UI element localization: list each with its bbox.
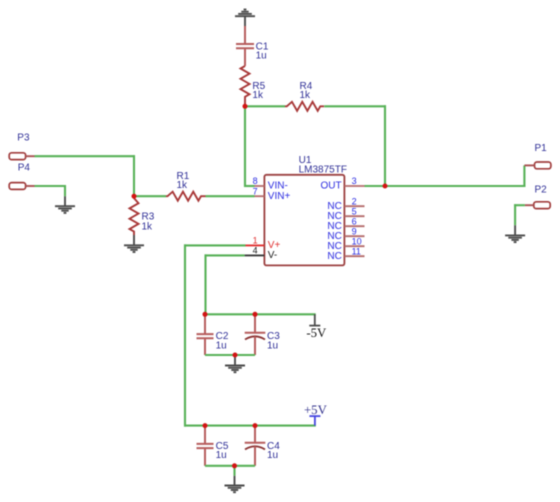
svg-text:+5V: +5V (304, 403, 328, 417)
capacitor C4 polarized (245, 426, 266, 466)
svg-text:1u: 1u (216, 340, 227, 351)
svg-text:3: 3 (352, 176, 357, 186)
node junction C2 top dot (203, 312, 208, 317)
ground GND under P2 (505, 225, 525, 242)
wire C2/C3 bottoms (205, 354, 255, 356)
svg-text:9: 9 (352, 226, 357, 236)
svg-text:P4: P4 (18, 162, 31, 173)
pin 4 V- (245, 254, 265, 256)
resistor R1 (166, 192, 205, 201)
svg-text:1k: 1k (142, 221, 154, 232)
wire P3 to corner (35, 155, 136, 157)
wire C5/C4 bottoms (205, 465, 255, 467)
node junction C2/C3 ground dot (233, 353, 238, 358)
connector P1 (524, 162, 551, 169)
wire R1 to pin 7 (206, 195, 255, 197)
svg-text:NC: NC (327, 251, 341, 262)
wire node to R1 (134, 195, 166, 197)
pin 2 NC (344, 205, 364, 207)
svg-text:1u: 1u (256, 51, 267, 62)
wire up to P1 (523, 165, 525, 187)
svg-text:10: 10 (352, 236, 362, 246)
wire junction to R4 (245, 105, 285, 107)
node junction C3 top dot (253, 312, 258, 317)
svg-text:VIN+: VIN+ (268, 191, 291, 202)
svg-text:-5V: -5V (306, 326, 327, 340)
capacitor C5 (197, 426, 214, 466)
supply +5V symbol (309, 416, 320, 426)
node junction OUT dot (383, 184, 388, 189)
svg-text:1k: 1k (177, 180, 189, 191)
wire R4 to corner (324, 105, 386, 107)
op-amp U1 body (264, 175, 344, 266)
node junction R5/R4 dot (243, 104, 248, 109)
node junction C5/C4 ground dot (232, 463, 237, 468)
wire ground to C1 (244, 26, 246, 44)
node junction C5 top dot (203, 423, 208, 428)
pin 11 NC (344, 255, 364, 257)
svg-text:8: 8 (253, 176, 258, 186)
capacitor C2 (197, 314, 214, 355)
svg-text:1u: 1u (267, 450, 278, 461)
resistor R3 (130, 196, 139, 235)
pin 10 NC (344, 245, 364, 247)
svg-text:1k: 1k (300, 90, 312, 101)
node junction P3/R1/R3 dot (132, 194, 137, 199)
wire pin4 V- run (205, 254, 245, 256)
wire P2 to ground (514, 204, 525, 206)
connector P3 (9, 153, 34, 160)
ground GND under C5/C4 (225, 476, 245, 492)
ground GND under C2/C3 (225, 356, 245, 373)
svg-text:1: 1 (253, 236, 258, 246)
resistor R5 (241, 66, 250, 106)
svg-text:P2: P2 (535, 184, 548, 195)
ground GND under P4 (55, 196, 75, 213)
pin 7 VIN+ (255, 195, 265, 197)
wire V- down to -5V rail (204, 254, 206, 315)
pin 8 VIN- (255, 185, 265, 187)
wire +5V rail (184, 425, 316, 427)
resistor R4 (285, 102, 324, 111)
wire corner down to OUT node (384, 105, 386, 186)
wire -5V rail (205, 313, 316, 315)
wire junction down to pin 8 (244, 106, 246, 187)
svg-text:V-: V- (268, 250, 277, 261)
capacitor C3 polarized (245, 314, 266, 355)
capacitor C1 (236, 44, 254, 66)
svg-text:2: 2 (352, 196, 357, 206)
svg-text:1u: 1u (216, 450, 227, 461)
supply -5V symbol (309, 314, 320, 325)
pin 1 V+ (246, 244, 265, 246)
pin 3 OUT (344, 185, 364, 187)
svg-text:5: 5 (352, 206, 357, 216)
connector P2 (525, 202, 550, 209)
wire V+ down to +5V rail (184, 244, 186, 426)
svg-text:1u: 1u (267, 340, 278, 351)
svg-text:6: 6 (352, 216, 357, 226)
svg-text:4: 4 (253, 246, 258, 256)
wire OUT to P1/P2 run (365, 185, 526, 187)
wire pin1 V+ run (184, 244, 246, 246)
wire corner down to R1 node (133, 155, 135, 196)
ground GND under R3 (124, 235, 144, 252)
svg-text:1k: 1k (252, 90, 264, 101)
svg-text:7: 7 (253, 186, 258, 196)
svg-text:P3: P3 (17, 132, 30, 143)
pin 9 NC (344, 235, 364, 237)
pin 5 NC (344, 215, 364, 217)
svg-text:11: 11 (352, 246, 361, 256)
wire P4 to ground (35, 185, 67, 187)
svg-text:OUT: OUT (320, 181, 341, 192)
connector P4 (9, 183, 34, 190)
ground GND top (235, 10, 255, 27)
svg-text:LM3875TF: LM3875TF (299, 165, 347, 176)
pin 6 NC (344, 225, 364, 227)
node junction C4 top dot (253, 423, 258, 428)
svg-text:P1: P1 (535, 143, 548, 154)
